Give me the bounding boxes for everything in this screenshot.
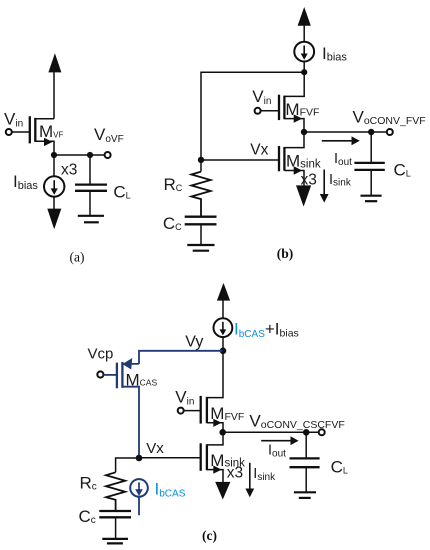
- supply VSS arrow (b): [296, 185, 311, 206]
- svg-text:Ibias: Ibias: [13, 172, 38, 192]
- current source IbCAS+Ibias (c): [214, 318, 233, 350]
- svg-text:Vx: Vx: [250, 142, 268, 159]
- svg-text:Vin: Vin: [175, 388, 194, 408]
- wire drain of MFVF (b): [284, 72, 304, 96]
- ground under Cc (c): [102, 539, 128, 544]
- svg-text:Iout: Iout: [334, 151, 352, 168]
- svg-text:Msink: Msink: [286, 152, 321, 171]
- resistor RC (b): [191, 172, 210, 217]
- capacitor CC (b): [185, 217, 217, 245]
- transistor Msink (c): [201, 435, 223, 483]
- transistor MCAS (blue): [117, 358, 139, 458]
- capacitor CL (b): [354, 163, 384, 195]
- supply VDD arrow (c): [217, 283, 230, 319]
- svg-text:x3: x3: [227, 465, 243, 482]
- input terminal Vin (b): [255, 108, 279, 114]
- svg-text:MFVF: MFVF: [210, 404, 244, 423]
- capacitor CL (c): [290, 458, 320, 492]
- output terminal VoCONV_FVF: [387, 129, 393, 135]
- current arrow Iout (c): [261, 436, 298, 445]
- svg-text:CC: CC: [163, 214, 182, 233]
- wire top horizontal to left branch (b): [201, 72, 304, 171]
- input terminal Vcp: [97, 371, 117, 377]
- output terminal VoCONV_CSCFVF: [319, 429, 325, 435]
- svg-text:Vx: Vx: [146, 440, 164, 457]
- svg-text:Vy: Vy: [185, 334, 203, 351]
- wire CL tap down (c): [305, 432, 307, 458]
- wire blue Vy to MCAS (c): [139, 351, 223, 364]
- current source Ibias (b): [294, 42, 314, 73]
- node output CSCFVF (c): [219, 429, 226, 436]
- transistor MFVF (c): [201, 396, 223, 432]
- capacitor Cc (c): [99, 511, 131, 539]
- input terminal Vin (c): [178, 408, 201, 414]
- svg-text:Isink: Isink: [329, 172, 352, 189]
- capacitor CL (a): [75, 185, 107, 216]
- current arrow Isink (c): [245, 463, 254, 497]
- svg-text:RC: RC: [164, 175, 183, 194]
- svg-text:Cc: Cc: [79, 507, 96, 526]
- wire output (c): [223, 431, 319, 433]
- wire Vx to Rc (c): [116, 458, 139, 472]
- svg-text:(a): (a): [70, 250, 85, 265]
- node Vy: [220, 348, 227, 355]
- supply VSS arrow (c): [215, 482, 230, 500]
- output terminal VoVF: [105, 152, 111, 158]
- svg-text:MFVF: MFVF: [285, 100, 319, 119]
- ground under CL (b): [361, 196, 382, 202]
- node output FVF (b): [301, 129, 307, 135]
- node Vx (c): [136, 455, 143, 462]
- svg-text:Rc: Rc: [80, 474, 97, 493]
- wire output (b): [304, 131, 387, 133]
- current source Ibias (a): [44, 155, 64, 197]
- current source IbCAS (blue, c): [130, 479, 148, 515]
- wire node B to CL (a): [89, 155, 91, 184]
- ground (a): [78, 216, 104, 223]
- svg-text:CL: CL: [394, 161, 411, 180]
- current arrow Isink (b): [320, 170, 329, 203]
- svg-text:Vin: Vin: [252, 87, 271, 107]
- input terminal Vin (a): [6, 129, 30, 135]
- svg-text:VoVF: VoVF: [94, 125, 124, 145]
- svg-text:x3: x3: [61, 162, 77, 179]
- transistor MFVF (b): [279, 95, 304, 132]
- ground under CL (c): [294, 492, 316, 498]
- wire Vx to gate of Msink (b): [201, 159, 279, 161]
- node CL tap (b): [368, 129, 374, 135]
- supply VSS arrow (a): [47, 197, 61, 230]
- svg-text:VoCONV_CSCFVF: VoCONV_CSCFVF: [249, 411, 344, 431]
- svg-text:Iout: Iout: [268, 443, 286, 460]
- svg-text:(b): (b): [277, 246, 294, 261]
- node B: capacitor tap (a): [87, 152, 93, 158]
- node A: source node of MVF: [51, 152, 57, 158]
- svg-text:Isink: Isink: [253, 466, 276, 483]
- supply VDD arrow (a): [48, 53, 61, 119]
- svg-text:(c): (c): [202, 528, 217, 543]
- transistor Msink (b): [279, 135, 304, 186]
- node drain net (b): [301, 69, 307, 75]
- svg-text:VoCONV_FVF: VoCONV_FVF: [353, 108, 426, 128]
- svg-text:Ibias: Ibias: [322, 44, 347, 64]
- ground under CC (b): [187, 245, 214, 251]
- transistor MVF: [30, 116, 54, 155]
- svg-text:MCAS: MCAS: [126, 370, 158, 389]
- svg-text:Vcp: Vcp: [88, 345, 114, 362]
- node CL tap (c): [303, 429, 310, 436]
- svg-text:Vin: Vin: [4, 109, 23, 129]
- wire Vx to gate Msink (c): [139, 457, 201, 459]
- resistor Rc (c): [106, 472, 125, 511]
- supply VDD arrow (b): [298, 7, 311, 42]
- svg-text:CL: CL: [331, 458, 348, 477]
- wire CL tap down (b): [370, 132, 372, 163]
- wire drain MFVF (c): [207, 351, 223, 398]
- wire node A to output (a): [54, 154, 105, 156]
- svg-text:IbCAS+Ibias: IbCAS+Ibias: [234, 320, 299, 341]
- svg-text:MVF: MVF: [39, 122, 64, 141]
- svg-text:CL: CL: [113, 182, 130, 201]
- current arrow Iout (b): [322, 136, 360, 145]
- svg-text:IbCAS: IbCAS: [155, 480, 186, 500]
- node Vx (b): [198, 157, 204, 163]
